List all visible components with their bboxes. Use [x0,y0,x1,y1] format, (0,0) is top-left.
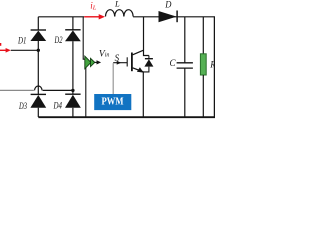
gate wire with arrow [113,61,127,65]
wire right edge branch (cropped) [213,17,215,117]
node junction dot left leg [37,49,40,52]
diode D4 [53,90,81,117]
svg-text:PWM: PWM [102,97,124,108]
capacitor C [170,17,193,117]
inductor L [106,10,134,17]
svg-text:C: C [170,58,177,68]
voltage sensor Vin (green) [85,50,110,69]
wire bottom bus [38,116,215,118]
svg-text:D1: D1 [17,35,26,45]
node junction dot right leg [71,89,74,92]
diode D [159,1,178,23]
load resistor R (green block) [200,17,216,117]
current arrow iL (red) [84,1,105,20]
wire emitter to bottom bus [142,72,144,117]
gate link wire from PWM (gray) [112,63,114,94]
wire right leg upper [72,17,74,30]
PWM block [94,94,131,110]
voltage sensor input wires [83,17,86,117]
wire top bus right segment [133,16,215,18]
AC input wire bottom (gray) with crossover hump [0,86,73,90]
svg-text:L: L [114,0,120,9]
wire top bus left segment [38,16,84,18]
diode D3 [18,94,46,117]
wire left leg upper [37,17,39,30]
svg-text:D4: D4 [53,101,63,111]
svg-text:D3: D3 [18,101,27,111]
diode D2 [54,30,81,91]
wire left leg middle [37,50,39,94]
svg-text:D: D [164,1,171,11]
antiparallel diode of S [143,56,153,72]
wire collector to top bus [144,17,149,56]
svg-text:D2: D2 [54,35,63,45]
AC input wire top with red source arrow [0,43,38,53]
diode D1 [17,30,46,50]
transistor S (IGBT) [127,50,143,72]
